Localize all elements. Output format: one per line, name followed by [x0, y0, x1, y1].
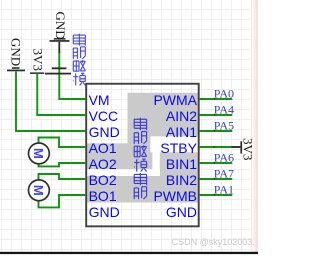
svg-text:PWMB: PWMB [153, 188, 197, 204]
svg-text:3V3: 3V3 [240, 138, 255, 160]
svg-text:PA5: PA5 [214, 118, 234, 132]
svg-text:GND: GND [89, 204, 120, 220]
svg-text:PA7: PA7 [214, 166, 234, 180]
svg-text:GND: GND [9, 38, 24, 66]
svg-text:VM: VM [89, 92, 110, 108]
svg-text:VCC: VCC [89, 108, 119, 124]
svg-text:AIN2: AIN2 [166, 108, 197, 124]
svg-text:PWMA: PWMA [153, 92, 197, 108]
svg-text:PA1: PA1 [214, 182, 234, 196]
svg-text:M: M [31, 148, 46, 159]
svg-text:GND: GND [53, 12, 68, 40]
svg-text:GND: GND [166, 204, 197, 220]
svg-text:AIN1: AIN1 [166, 124, 197, 140]
svg-text:PA6: PA6 [214, 150, 234, 164]
svg-text:STBY: STBY [160, 140, 197, 156]
svg-text:BO2: BO2 [89, 172, 117, 188]
svg-text:GND: GND [89, 124, 120, 140]
svg-text:BIN2: BIN2 [166, 172, 197, 188]
svg-text:CSDN @sky102003.: CSDN @sky102003. [172, 237, 255, 247]
svg-text:PA4: PA4 [214, 102, 234, 116]
svg-text:BO1: BO1 [89, 188, 117, 204]
svg-text:BIN1: BIN1 [166, 156, 197, 172]
svg-text:3V3: 3V3 [31, 49, 46, 71]
svg-text:PA0: PA0 [214, 86, 234, 100]
svg-text:AO1: AO1 [89, 140, 117, 156]
svg-text:AO2: AO2 [89, 156, 117, 172]
svg-text:M: M [31, 185, 46, 196]
